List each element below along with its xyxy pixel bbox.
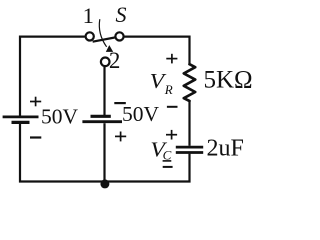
battery B2 short plate (−, top) <box>91 115 111 118</box>
polarity − (B1) <box>30 136 41 138</box>
svg-text:S: S <box>116 2 127 27</box>
svg-text:2uF: 2uF <box>207 136 244 162</box>
capacitor C top plate <box>176 146 203 149</box>
wire: resistor to capacitor <box>188 102 190 146</box>
wire: node S to top-right corner down to resistor <box>124 37 189 65</box>
switch blade <box>93 38 115 42</box>
polarity + (VR) <box>166 54 177 64</box>
polarity + (VC) <box>166 130 177 140</box>
switch throw arrowhead <box>106 45 113 52</box>
svg-text:1: 1 <box>83 3 94 28</box>
svg-text:2: 2 <box>109 48 121 73</box>
wire: junction along bottom to bottom-right corner up to capacitor <box>104 154 189 182</box>
switch throw arc <box>99 19 106 47</box>
switch terminal 2 <box>101 58 110 67</box>
svg-text:R: R <box>164 82 173 97</box>
svg-text:50V: 50V <box>41 105 79 129</box>
svg-text:5KΩ: 5KΩ <box>204 67 253 94</box>
wire: node1 to top-left corner down to battery B1 + <box>20 37 85 116</box>
switch terminal 1 <box>86 32 94 40</box>
capacitor C bottom plate <box>176 151 203 154</box>
battery B1 long plate (+) <box>3 116 39 119</box>
svg-text:50V: 50V <box>122 102 160 126</box>
battery B2 long plate (+, bottom) <box>82 120 122 123</box>
resistor R (5KΩ) zigzag <box>184 64 195 101</box>
wire: battery B1 − to bottom-left corner to junction <box>20 124 104 182</box>
polarity + (B1) <box>30 97 41 107</box>
polarity + (B2) <box>115 132 126 142</box>
wire: battery B2 to junction <box>103 123 105 181</box>
wire: node 2 down to battery B2 <box>103 67 105 116</box>
label VC <box>150 137 171 162</box>
switch terminal S (pivot) <box>115 32 123 40</box>
polarity − (B2) <box>114 102 126 104</box>
polarity − (VC) <box>163 166 173 168</box>
junction dot <box>100 179 109 188</box>
polarity − (VR) <box>167 106 178 108</box>
battery B1 short plate (−) <box>12 121 30 124</box>
label VR <box>150 69 173 97</box>
